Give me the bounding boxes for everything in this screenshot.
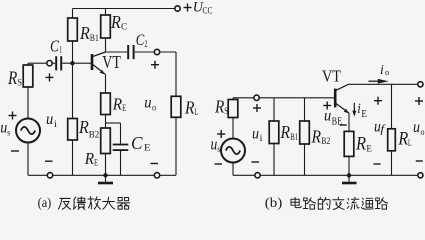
svg-text:S: S	[224, 107, 228, 117]
svg-text:s: s	[7, 128, 10, 138]
svg-text:u: u	[413, 119, 420, 136]
svg-text:R: R	[79, 23, 90, 43]
svg-text:R: R	[7, 69, 17, 89]
svg-text:B2: B2	[321, 136, 330, 147]
svg-text:i: i	[380, 62, 384, 77]
svg-text:R: R	[112, 95, 123, 114]
svg-text:VT: VT	[102, 52, 121, 72]
svg-text:B2: B2	[89, 129, 100, 140]
svg-text:1: 1	[59, 46, 62, 56]
svg-text:u: u	[46, 111, 53, 128]
svg-text:i: i	[260, 134, 263, 144]
svg-text:E: E	[144, 144, 151, 154]
svg-text:C: C	[136, 32, 145, 49]
svg-text:R: R	[280, 122, 291, 142]
svg-text:(b): (b)	[265, 195, 283, 211]
svg-text:u: u	[144, 95, 151, 112]
svg-text:L: L	[195, 108, 199, 118]
svg-text:R: R	[398, 129, 409, 150]
svg-text:R: R	[184, 97, 195, 117]
svg-text:C: C	[131, 133, 143, 153]
svg-text:i: i	[54, 120, 57, 130]
svg-text:o: o	[421, 128, 425, 138]
svg-text:s: s	[217, 144, 220, 154]
svg-text:CC: CC	[203, 6, 213, 16]
svg-text:2: 2	[145, 40, 148, 50]
svg-text:u: u	[211, 135, 218, 154]
svg-text:o: o	[152, 104, 156, 114]
svg-text:o: o	[385, 67, 390, 77]
svg-text:S: S	[17, 79, 22, 89]
svg-text:u: u	[0, 120, 7, 137]
svg-text:VT: VT	[322, 67, 342, 86]
svg-text:R: R	[355, 134, 366, 155]
svg-text:E: E	[366, 144, 372, 155]
svg-text:B1: B1	[90, 33, 99, 44]
svg-text:R: R	[214, 97, 224, 117]
svg-text:u: u	[324, 108, 331, 125]
svg-text:R: R	[110, 12, 121, 32]
svg-text:BE: BE	[332, 117, 343, 128]
svg-text:E: E	[94, 158, 98, 168]
svg-text:C: C	[121, 22, 127, 33]
svg-text:B1: B1	[290, 132, 298, 143]
svg-text:E: E	[122, 104, 126, 114]
svg-text:u: u	[252, 126, 259, 143]
svg-text:i: i	[357, 101, 361, 117]
svg-text:R: R	[311, 126, 322, 146]
svg-text:E: E	[361, 109, 367, 120]
svg-text:R: R	[84, 149, 95, 168]
svg-text:L: L	[408, 139, 412, 149]
svg-text:R: R	[78, 117, 89, 137]
svg-text:(a): (a)	[38, 195, 52, 210]
